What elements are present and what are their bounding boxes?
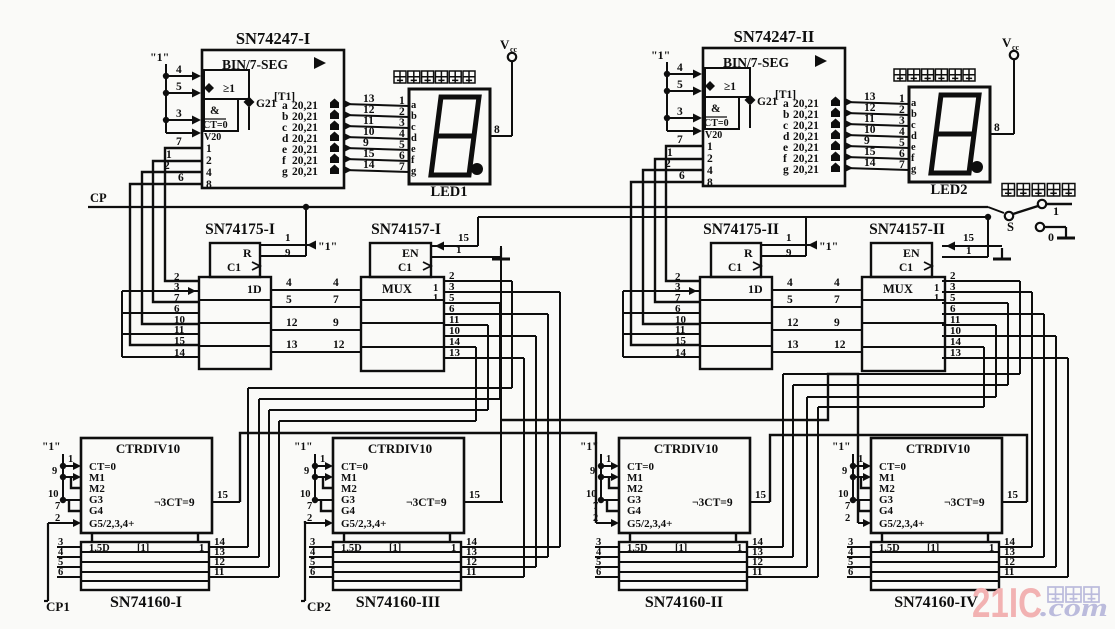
- svg-text:CTRDIV10: CTRDIV10: [368, 441, 432, 456]
- wire data input 5 of SN74160-I: [57, 566, 81, 568]
- svg-text:1: 1: [786, 232, 792, 244]
- register box of SN74160-I: [81, 542, 209, 590]
- wire clock pin of SN74175-I: [260, 255, 306, 257]
- wire M1 pin of SN74160-III: [315, 476, 325, 478]
- svg-text:10: 10: [838, 489, 849, 500]
- svg-text:4: 4: [787, 277, 793, 289]
- svg-text:1: 1: [206, 143, 212, 155]
- svg-text:"1": "1": [294, 441, 313, 453]
- svg-text:G5/2,3,4+: G5/2,3,4+: [341, 518, 386, 530]
- svg-text:"1": "1": [819, 239, 838, 253]
- svg-text:C1: C1: [899, 262, 913, 274]
- svg-text:CTRDIV10: CTRDIV10: [116, 441, 180, 456]
- wire D13 to mux: [271, 351, 361, 353]
- wire complement outputs of SN74175-II: [623, 290, 700, 292]
- svg-text:6: 6: [596, 567, 601, 578]
- svg-text:G5/2,3,4+: G5/2,3,4+: [879, 518, 924, 530]
- svg-text:SN74247-II: SN74247-II: [734, 27, 815, 46]
- svg-text:e: e: [911, 142, 916, 153]
- wire horizontal links to counter II: [783, 373, 1020, 375]
- wire mux-II pin y314: [942, 313, 1044, 315]
- wire output 11 of SN74160-II: [747, 576, 818, 578]
- wire D12 to mux: [271, 329, 361, 331]
- wire vertical x512: [511, 281, 513, 388]
- wire horizontal links to counter I: [248, 387, 512, 389]
- svg-text:1: 1: [199, 543, 204, 554]
- svg-text:¬3CT=9: ¬3CT=9: [944, 497, 985, 509]
- svg-text:3: 3: [677, 106, 683, 118]
- svg-text:1: 1: [934, 293, 939, 304]
- wire mux-II pin y325: [942, 324, 996, 326]
- svg-text:7: 7: [55, 501, 60, 512]
- wire G4 pin of SN74160-I: [69, 500, 81, 511]
- wire G4 pin of SN74160-II: [607, 500, 619, 511]
- wire vertical x1020: [1019, 281, 1021, 374]
- wire output 12 of SN74160-IV: [999, 566, 1056, 568]
- wire vertical x524 to counter III: [523, 358, 525, 577]
- wire vertical x1008: [1007, 303, 1009, 385]
- wire RCO counter III riser: [500, 246, 502, 502]
- wire data input 6 of SN74160-III: [309, 576, 333, 578]
- svg-text:6: 6: [848, 567, 853, 578]
- display LED1 common-anode 7-segment: [394, 71, 406, 83]
- wire clock G5 pin of SN74160-II: [596, 522, 611, 524]
- svg-text:g: g: [411, 166, 417, 177]
- svg-text:¬3CT=9: ¬3CT=9: [692, 497, 733, 509]
- svg-text:c: c: [411, 122, 416, 133]
- svg-text:2: 2: [307, 513, 312, 524]
- wire G4 pin of SN74160-III: [321, 500, 333, 511]
- wire output 13 of SN74160-II: [747, 556, 793, 558]
- wire data input 3 of SN74160-IV: [847, 546, 871, 548]
- wire output 11 of SN74160-III: [461, 576, 524, 578]
- svg-text:R: R: [744, 246, 753, 260]
- wire BCD input 3 of SN74247-I down to latch: [142, 172, 202, 324]
- wire data input 4 of SN74160-IV: [847, 556, 871, 558]
- wire data input 6 of SN74160-II: [595, 576, 619, 578]
- svg-text:SN74157-I: SN74157-I: [371, 221, 441, 238]
- wire output 11 of SN74160-IV: [999, 576, 1068, 578]
- wire BCD input 3 of SN74247-II down to latch: [643, 170, 703, 324]
- svg-text:"1": "1": [832, 441, 851, 453]
- IC SN74160-II decade counter: [619, 438, 750, 533]
- wire clock G5 pin of SN74160-III: [305, 522, 325, 524]
- node CP1 input: [47, 523, 49, 601]
- wire vertical x1056 to counter IV: [1055, 336, 1057, 567]
- svg-text:a: a: [411, 100, 417, 111]
- svg-text:¬3CT=9: ¬3CT=9: [154, 497, 195, 509]
- svg-text:12: 12: [834, 339, 846, 351]
- svg-text:1: 1: [451, 543, 456, 554]
- wire output 11 of SN74160-I: [209, 576, 279, 578]
- wire data input 3 of SN74160-I: [57, 546, 81, 548]
- switch S: [1005, 212, 1013, 220]
- wire segment line 1: [845, 102, 909, 104]
- svg-text:15: 15: [755, 489, 767, 501]
- wire M2 pin of SN74160-I: [71, 477, 81, 488]
- wire RCO counter III to clock of counter IV: [501, 374, 858, 523]
- wire M1 pin of SN74160-II: [601, 476, 611, 478]
- svg-text:SN74247-I: SN74247-I: [236, 29, 310, 48]
- svg-text:5: 5: [176, 81, 182, 93]
- svg-text:0: 0: [1048, 230, 1054, 244]
- svg-text:V: V: [1002, 35, 1012, 50]
- svg-text:6: 6: [679, 170, 685, 182]
- svg-text:9: 9: [590, 466, 595, 477]
- svg-text:G5/2,3,4+: G5/2,3,4+: [89, 518, 134, 530]
- svg-text:11: 11: [466, 566, 476, 578]
- wire D5 to mux: [772, 306, 862, 308]
- wire segment line 3: [344, 126, 409, 128]
- wire segment line 1: [344, 104, 409, 106]
- wire segment line 4: [344, 137, 409, 139]
- wire data input 5 of SN74160-III: [309, 566, 333, 568]
- wire counter II output risers: [782, 374, 784, 547]
- svg-text:CTRDIV10: CTRDIV10: [906, 441, 970, 456]
- svg-text:2: 2: [845, 513, 850, 524]
- svg-text:2: 2: [55, 513, 60, 524]
- svg-text:V: V: [500, 37, 510, 52]
- wire output 14 of SN74160-I: [209, 546, 248, 548]
- svg-text:"1": "1": [318, 239, 337, 253]
- svg-text:8: 8: [994, 122, 1000, 134]
- svg-text:[1]: [1]: [927, 543, 939, 554]
- svg-text:1D: 1D: [748, 282, 763, 296]
- svg-text:LED2: LED2: [930, 182, 967, 198]
- node CP2 input: [304, 521, 306, 601]
- svg-text:15: 15: [963, 232, 975, 244]
- wire BCD input 1 of SN74247-II down to latch: [666, 146, 703, 281]
- wire mux-II pin y336: [942, 335, 1056, 337]
- svg-text:G4: G4: [627, 505, 642, 517]
- svg-text:1: 1: [456, 244, 462, 256]
- wire segment line 3: [845, 124, 909, 126]
- wire output 14 of SN74160-IV: [999, 546, 1032, 548]
- wire G3 pin of SN74160-I: [63, 499, 81, 501]
- display LED2 common-anode 7-segment: [894, 69, 906, 81]
- wire segment line 4: [845, 135, 909, 137]
- svg-text:1: 1: [966, 245, 972, 257]
- wire select line: [478, 216, 988, 218]
- wire BCD input 4 of SN74247-I down to latch: [130, 184, 202, 345]
- wire pin 4 of SN74247-II: [667, 73, 693, 75]
- svg-text:9: 9: [52, 466, 57, 477]
- wire mux-II pin y358: [942, 357, 1068, 359]
- svg-text:5: 5: [677, 79, 683, 91]
- svg-text:6: 6: [310, 567, 315, 578]
- wire data input 4 of SN74160-III: [309, 556, 333, 558]
- IC SN74160-III decade counter: [333, 438, 464, 533]
- svg-text:7: 7: [845, 501, 850, 512]
- wire CT pin of SN74160-III: [315, 465, 325, 467]
- wire CT pin of SN74160-II: [601, 465, 611, 467]
- svg-text:CP1: CP1: [46, 599, 70, 614]
- wire mux-I pin y281: [444, 280, 512, 282]
- wire segment line 7: [845, 168, 909, 170]
- svg-text:14: 14: [363, 159, 375, 171]
- svg-text:9: 9: [786, 247, 792, 259]
- wire vertical x996: [995, 325, 997, 397]
- svg-text:5: 5: [787, 294, 793, 306]
- wire output 13 of SN74160-I: [209, 556, 259, 558]
- wire clock G5 pin of SN74160-I: [48, 522, 73, 524]
- wire G4 pin of SN74160-IV: [859, 500, 871, 511]
- svg-text:V20: V20: [204, 132, 221, 143]
- svg-text:3: 3: [176, 108, 182, 120]
- svg-text:C1: C1: [728, 262, 742, 274]
- wire mux-I pin y347: [444, 346, 476, 348]
- svg-text:4: 4: [286, 277, 292, 289]
- svg-text:LED1: LED1: [430, 184, 467, 200]
- IC SN74160-IV decade counter: [871, 438, 1002, 533]
- wire clock G5 pin of SN74160-IV: [858, 522, 863, 524]
- wire output 14 of SN74160-III: [461, 546, 560, 548]
- svg-text:SN74160-IV: SN74160-IV: [894, 594, 978, 611]
- wire BCD input 4 of SN74247-II down to latch: [631, 182, 703, 345]
- wire segment line 5: [344, 148, 409, 150]
- svg-text:CP: CP: [90, 191, 107, 205]
- svg-text:1: 1: [433, 293, 438, 304]
- wire segment line 7: [344, 170, 409, 172]
- svg-text:¬3CT=9: ¬3CT=9: [406, 497, 447, 509]
- svg-text:g: g: [783, 164, 789, 176]
- wire output 14 of SN74160-II: [747, 546, 783, 548]
- svg-text:9: 9: [333, 317, 339, 329]
- svg-text:d: d: [411, 133, 417, 144]
- svg-text:[1]: [1]: [675, 543, 687, 554]
- svg-text:7: 7: [176, 136, 182, 148]
- svg-text:V20: V20: [705, 130, 722, 141]
- svg-text:8: 8: [707, 177, 713, 189]
- svg-text:7: 7: [899, 159, 905, 171]
- svg-text:g: g: [282, 166, 288, 178]
- wire data input 6 of SN74160-IV: [847, 576, 871, 578]
- svg-text:21IC: 21IC: [972, 579, 1042, 626]
- svg-text:g: g: [911, 164, 917, 175]
- wire C1 of SN74157-I to ground: [431, 256, 501, 258]
- register box of SN74160-III: [333, 542, 461, 590]
- svg-text:10: 10: [48, 489, 59, 500]
- svg-text:C1: C1: [227, 262, 241, 274]
- wire M2 pin of SN74160-IV: [861, 477, 871, 488]
- svg-text:11: 11: [752, 566, 762, 578]
- svg-text:SN74175-I: SN74175-I: [205, 221, 275, 238]
- IC SN74160-I decade counter: [81, 438, 212, 533]
- wire mux-I pin y358: [444, 357, 524, 359]
- svg-text:5: 5: [286, 294, 292, 306]
- wire segment line 6: [344, 159, 409, 161]
- svg-text:2: 2: [707, 153, 713, 165]
- svg-text:7: 7: [307, 501, 312, 512]
- wire segment line 2: [344, 115, 409, 117]
- svg-text:e: e: [411, 144, 416, 155]
- svg-text:1: 1: [606, 454, 611, 465]
- wire segment line 6: [845, 157, 909, 159]
- wire D4 to mux: [772, 289, 862, 291]
- wire data input 3 of SN74160-III: [309, 546, 333, 548]
- wire output 12 of SN74160-I: [209, 566, 269, 568]
- svg-text:b: b: [411, 111, 417, 122]
- wire CT pin of SN74160-IV: [853, 465, 863, 467]
- svg-text:1: 1: [989, 543, 994, 554]
- wire G3 pin of SN74160-III: [315, 499, 333, 501]
- svg-text:4: 4: [176, 64, 182, 76]
- ground at SN74157-I: [500, 248, 502, 259]
- svg-text:15: 15: [469, 489, 481, 501]
- wire mux-II pin y347: [942, 346, 984, 348]
- wire M1 pin of SN74160-I: [63, 476, 73, 478]
- svg-text:1: 1: [707, 141, 713, 153]
- svg-text:CTRDIV10: CTRDIV10: [654, 441, 718, 456]
- svg-text:2: 2: [206, 155, 212, 167]
- svg-text:b: b: [911, 109, 917, 120]
- svg-text:9: 9: [285, 247, 291, 259]
- svg-text:13: 13: [787, 339, 799, 351]
- wire switch position 1: [1046, 203, 1072, 205]
- wire vertical x548 to counter III: [547, 314, 549, 557]
- svg-text:&: &: [711, 103, 721, 115]
- wire vertical x488: [487, 325, 489, 410]
- wire D12 to mux: [772, 329, 862, 331]
- svg-text:14: 14: [864, 157, 876, 169]
- wire mux-I pin y314: [444, 313, 548, 315]
- svg-text:G5/2,3,4+: G5/2,3,4+: [627, 518, 672, 530]
- svg-text:G21: G21: [256, 98, 277, 110]
- wire vertical x1032 to counter IV: [1031, 292, 1033, 547]
- svg-text:≥1: ≥1: [724, 81, 736, 93]
- svg-text:15: 15: [675, 335, 687, 347]
- wire mux-II pin y281: [942, 280, 1020, 282]
- wire EN of SN74157-II to ground: [942, 245, 1002, 247]
- wire vertical x500: [499, 303, 501, 399]
- svg-text:2: 2: [665, 158, 671, 170]
- svg-text:≥1: ≥1: [223, 83, 235, 95]
- wire vertical x1068 to counter IV: [1067, 358, 1069, 577]
- svg-text:f: f: [911, 153, 915, 164]
- wire BCD input 2 of SN74247-II down to latch: [655, 159, 703, 302]
- svg-text:G21: G21: [757, 96, 778, 108]
- svg-text:1,5D: 1,5D: [627, 543, 648, 554]
- wire data input 4 of SN74160-I: [57, 556, 81, 558]
- wire complement outputs of SN74175-I: [122, 290, 199, 292]
- svg-text:7: 7: [677, 134, 683, 146]
- wire BCD input 1 of SN74247-I down to latch: [165, 148, 202, 281]
- svg-text:13: 13: [286, 339, 298, 351]
- wire counter I output risers: [247, 388, 249, 547]
- svg-text:4: 4: [707, 165, 713, 177]
- wire M2 pin of SN74160-II: [609, 477, 619, 488]
- svg-text:"1": "1": [42, 441, 61, 453]
- svg-text:EN: EN: [402, 246, 419, 260]
- svg-text:1: 1: [737, 543, 742, 554]
- svg-text:MUX: MUX: [883, 282, 913, 296]
- wire BCD input 2 of SN74247-I down to latch: [153, 161, 202, 302]
- svg-text:EN: EN: [903, 246, 920, 260]
- wire pin 4 of SN74247-I: [166, 75, 192, 77]
- svg-text:1: 1: [1053, 204, 1059, 218]
- svg-text:12: 12: [286, 317, 298, 329]
- wire vertical x536 to counter III: [535, 336, 537, 567]
- svg-text:1: 1: [68, 454, 73, 465]
- wire output 12 of SN74160-II: [747, 566, 807, 568]
- svg-text:4: 4: [206, 167, 212, 179]
- wire pin 3 of SN74247-I: [166, 119, 192, 121]
- wire reset pin of SN74175-II: [761, 244, 817, 246]
- svg-text:10: 10: [300, 489, 311, 500]
- svg-text:12: 12: [787, 317, 799, 329]
- svg-text:SN74175-II: SN74175-II: [703, 221, 779, 238]
- register box of SN74160-II: [619, 542, 747, 590]
- wire D5 to mux: [271, 306, 361, 308]
- wire clock pin of SN74175-II: [761, 255, 806, 257]
- svg-text:G4: G4: [879, 505, 894, 517]
- svg-text:CT=0: CT=0: [704, 118, 729, 129]
- wire mux-I pin y325: [444, 324, 488, 326]
- wire vertical x476: [475, 347, 477, 421]
- wire reset pin of SN74175-I: [260, 244, 316, 246]
- svg-text:1: 1: [285, 232, 291, 244]
- svg-text:CP2: CP2: [307, 599, 331, 614]
- wire D13 to mux: [772, 351, 862, 353]
- wire mux-I pin y292: [444, 291, 560, 293]
- svg-text:R: R: [243, 246, 252, 260]
- svg-text:1D: 1D: [247, 282, 262, 296]
- svg-text:SN74160-II: SN74160-II: [645, 594, 723, 611]
- wire data input 4 of SN74160-II: [595, 556, 619, 558]
- svg-text:15: 15: [217, 489, 229, 501]
- wire vertical x984: [983, 347, 985, 407]
- wire data input 3 of SN74160-II: [595, 546, 619, 548]
- svg-text:[1]: [1]: [389, 543, 401, 554]
- svg-text:2: 2: [164, 160, 170, 172]
- wire pin 3 of SN74247-II: [667, 117, 693, 119]
- svg-text:4: 4: [834, 277, 840, 289]
- wire mux-I pin y303: [444, 302, 500, 304]
- wire data input 6 of SN74160-I: [57, 576, 81, 578]
- svg-text:15: 15: [1007, 489, 1019, 501]
- switch contact 0: [1036, 223, 1044, 231]
- svg-text:9: 9: [842, 466, 847, 477]
- svg-text:[1]: [1]: [137, 543, 149, 554]
- wire G3 pin of SN74160-II: [601, 499, 619, 501]
- svg-text:1,5D: 1,5D: [879, 543, 900, 554]
- svg-text:f: f: [411, 155, 415, 166]
- svg-text:15: 15: [174, 335, 186, 347]
- svg-text:7: 7: [333, 294, 339, 306]
- wire output 13 of SN74160-III: [461, 556, 548, 558]
- svg-text:7: 7: [399, 161, 405, 173]
- svg-text:MUX: MUX: [382, 282, 412, 296]
- svg-text:6: 6: [178, 172, 184, 184]
- svg-text:6: 6: [58, 567, 63, 578]
- svg-text:20,21: 20,21: [292, 166, 318, 178]
- svg-text:S: S: [1007, 220, 1014, 234]
- svg-text:a: a: [911, 98, 917, 109]
- svg-text:CT=0: CT=0: [203, 120, 228, 131]
- svg-text:9: 9: [834, 317, 840, 329]
- svg-text:20,21: 20,21: [793, 164, 819, 176]
- wire data input 5 of SN74160-II: [595, 566, 619, 568]
- svg-text:G4: G4: [89, 505, 104, 517]
- wire M1 pin of SN74160-IV: [853, 476, 863, 478]
- junction on select line: [985, 214, 991, 220]
- svg-text:1,5D: 1,5D: [341, 543, 362, 554]
- wire RCO counter II to RCO counter IV: [770, 435, 1027, 502]
- wire segment line 2: [845, 113, 909, 115]
- svg-text:c: c: [911, 120, 916, 131]
- svg-text:&: &: [210, 105, 220, 117]
- svg-text:11: 11: [1004, 566, 1014, 578]
